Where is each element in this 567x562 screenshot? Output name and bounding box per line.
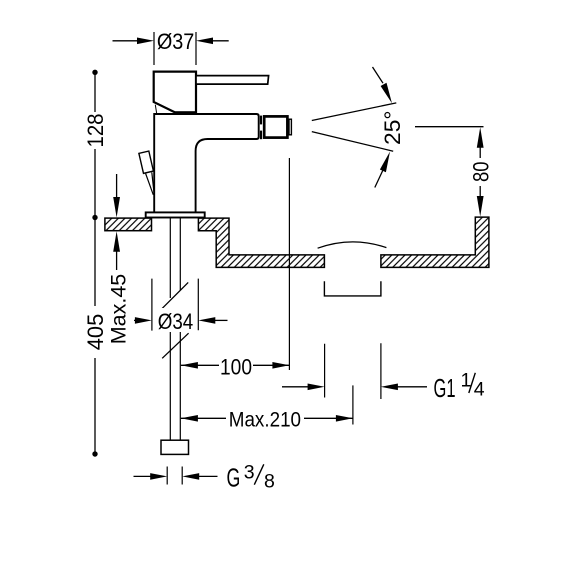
svg-text:3: 3 <box>244 462 255 484</box>
G1 1/4 right arrow <box>394 386 427 388</box>
dimension Ø37 extension lines <box>154 32 196 65</box>
drain centerline extension <box>352 385 354 424</box>
faucet body and spout outline <box>154 114 259 212</box>
supply connector block G3/8 <box>161 440 189 454</box>
dimension Max.45 lower arrow <box>116 250 118 270</box>
svg-text:4: 4 <box>474 379 485 401</box>
svg-text:G1: G1 <box>434 373 456 403</box>
spray angle bottom arrow <box>375 170 383 188</box>
dimension 80 lower arrow <box>479 186 481 199</box>
dimension 100 line left arrow <box>181 364 219 366</box>
G 3/8 extension ticks <box>167 467 182 485</box>
handle lever arm <box>196 76 269 85</box>
spray angle upper line <box>312 103 397 121</box>
spout separator ring bottom tab <box>260 131 262 140</box>
pop-up drain knob <box>139 151 154 173</box>
svg-text:80: 80 <box>468 162 493 183</box>
G1 1/4 extension lines <box>325 343 381 399</box>
svg-text:25°: 25° <box>380 110 405 145</box>
dimension 80 upper arrow <box>479 144 481 158</box>
spout separator ring top tab <box>260 116 262 125</box>
pipe break slash 2 <box>162 333 188 358</box>
pipe break slash 1 <box>161 282 188 309</box>
dimension Ø37 arrows and lines <box>113 40 141 42</box>
dimension Ø34 label <box>156 308 195 332</box>
shelf right part and wall hatched <box>381 217 489 267</box>
dimension Ø34 arrows <box>134 319 138 321</box>
svg-text:Max.45: Max.45 <box>107 274 131 345</box>
svg-text:Ø37: Ø37 <box>157 29 195 54</box>
dimension Max.210 left arrow <box>181 417 226 419</box>
spray angle top arrow <box>373 67 384 83</box>
deck right section with step and shelf left part <box>198 218 324 267</box>
svg-text:128: 128 <box>83 114 108 148</box>
svg-text:G: G <box>227 463 241 493</box>
riser pipe lower segment <box>170 332 180 440</box>
water surface arc <box>318 242 387 248</box>
svg-text:405: 405 <box>83 314 108 351</box>
riser pipe upper segment <box>170 218 180 298</box>
faucet base plate <box>146 212 205 217</box>
dimension Max.210 right arrow <box>304 417 353 419</box>
G 3/8 left arrow <box>134 475 153 477</box>
left dimension line with dots <box>94 72 96 454</box>
dimension 100 line right arrow <box>253 364 289 366</box>
height reference line at spout level <box>415 126 484 128</box>
G 3/8 right arrow <box>196 475 218 477</box>
spray angle lower line <box>312 132 393 152</box>
node dot middle <box>92 215 97 220</box>
G1 1/4 left arrow <box>282 386 308 388</box>
handle bottom thick band <box>174 111 196 114</box>
pop-up drain rod <box>146 172 155 195</box>
node dot bottom <box>92 451 97 456</box>
svg-text:Ø34: Ø34 <box>158 309 194 334</box>
dimension Max.45 upper arrow <box>116 174 118 198</box>
small line at handle base left <box>155 105 156 113</box>
aerator body <box>264 116 287 137</box>
deck left section hatched <box>105 218 152 231</box>
svg-text:Max.210: Max.210 <box>229 408 301 432</box>
drain pipe U outline <box>324 281 381 296</box>
node dot top <box>92 70 97 75</box>
dimension Ø34 extension lines <box>152 279 198 331</box>
aerator tip <box>289 119 291 135</box>
spout stream extension line <box>288 158 290 370</box>
svg-text:100: 100 <box>220 354 252 379</box>
svg-text:8: 8 <box>264 471 275 493</box>
faucet handle block <box>154 72 196 113</box>
